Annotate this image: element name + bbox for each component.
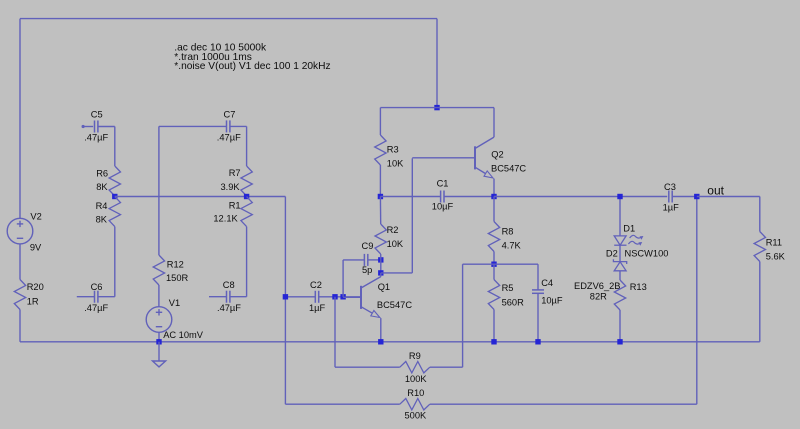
wire R13 bottom to rail (619, 310, 621, 342)
svg-text:5.6K: 5.6K (766, 251, 786, 261)
wire R7 bottom to node (246, 195, 248, 198)
diode D2 zener (613, 259, 626, 271)
svg-text:100K: 100K (405, 374, 428, 384)
wire C7 row left vertical to R12 (158, 126, 160, 255)
node out (694, 194, 699, 199)
transistor Q2 BC547C (412, 108, 494, 197)
svg-text:10K: 10K (387, 239, 404, 249)
svg-text:1R: 1R (27, 297, 39, 307)
node R9 tap on base wire (332, 294, 337, 299)
capacitor C8 (209, 296, 227, 298)
svg-text:1µF: 1µF (309, 303, 326, 313)
resistor R4 (109, 197, 120, 227)
svg-text:C7: C7 (224, 109, 236, 119)
svg-text:8K: 8K (96, 215, 108, 225)
svg-text:R7: R7 (229, 168, 241, 178)
svg-text:R8: R8 (502, 227, 514, 237)
svg-text:C1: C1 (437, 179, 449, 189)
svg-text:BC547C: BC547C (377, 300, 412, 310)
node Q1 collector junction (378, 270, 383, 275)
wire D1-D2 link (619, 245, 621, 261)
wire drop to R10 row (284, 197, 286, 405)
node C4 bottom rail (535, 339, 540, 344)
resistor R20 (14, 280, 25, 310)
svg-text:R9: R9 (409, 351, 421, 361)
wire V1 bottom to rail (158, 332, 160, 342)
wire R12 to V1 (158, 285, 160, 307)
svg-text:500K: 500K (405, 411, 428, 421)
ground rail bottom (20, 341, 760, 343)
wire R10 row (285, 403, 399, 405)
svg-text:.47µF: .47µF (84, 133, 108, 143)
node C9 right R2 bottom (378, 257, 383, 262)
wire R3 top lead (379, 108, 381, 135)
wire R20 to ground rail (19, 310, 21, 342)
wire top rail from V2 to center tee (20, 18, 437, 20)
svg-text:R2: R2 (387, 225, 399, 235)
svg-text:C3: C3 (664, 182, 676, 192)
capacitor C3 (668, 191, 670, 203)
resistor R1 (241, 197, 252, 227)
wire R4 bottom to C6 (114, 227, 116, 297)
resistor R8 (488, 222, 499, 252)
svg-text:R5: R5 (502, 283, 514, 293)
node R7-R1 junction (244, 194, 249, 199)
wire R6 bottom to node (114, 195, 116, 198)
transistor Q1 BC547C (343, 273, 381, 342)
wire mid row node to R2 top (379, 197, 381, 225)
resistor R5 (488, 280, 499, 310)
svg-text:9V: 9V (30, 242, 42, 252)
capacitor C2 (285, 296, 315, 298)
wire R9 row right (430, 366, 463, 368)
capacitor C9 left riser (342, 260, 344, 297)
svg-text:R10: R10 (407, 388, 424, 398)
LED arrows D1 (628, 235, 643, 245)
svg-text:10K: 10K (387, 159, 404, 169)
wire out riser (696, 197, 698, 405)
svg-text:10µF: 10µF (541, 295, 563, 305)
wire R8 bottom to junction (493, 252, 495, 265)
resistor R3 (375, 135, 386, 165)
svg-text:EDZV6_2B: EDZV6_2B (574, 281, 621, 291)
node V1 ground junction (156, 339, 161, 344)
wire R10 row right to out riser (430, 403, 697, 405)
svg-text:R13: R13 (630, 282, 647, 292)
wire R2 bottom lead (380, 254, 382, 260)
wire mid row right section (494, 196, 667, 198)
svg-text:82R: 82R (590, 292, 607, 302)
ground symbol (153, 342, 166, 367)
svg-text:NSCW100: NSCW100 (625, 248, 669, 258)
svg-text:10µF: 10µF (432, 202, 454, 212)
svg-text:C5: C5 (91, 109, 103, 119)
svg-text:AC 10mV: AC 10mV (163, 330, 204, 340)
node R8-R5-C4 junction (491, 262, 496, 267)
capacitor C9 (343, 259, 364, 261)
node tee at top sub-rail (434, 105, 439, 110)
svg-text:1µF: 1µF (663, 202, 680, 212)
wire C5 left lead (83, 126, 93, 128)
resistor R9 (400, 362, 430, 373)
svg-text:R6: R6 (96, 168, 108, 178)
wire R9 right riser (462, 264, 464, 367)
svg-text:C8: C8 (223, 280, 235, 290)
wire junction to R5 top (493, 264, 495, 279)
svg-text:D2: D2 (606, 248, 618, 258)
capacitor C5 open end dot (82, 125, 85, 128)
wire collector node to Q2 base riser (381, 272, 413, 274)
wire C4 bottom to rail (537, 293, 539, 342)
node C2 left tap (283, 294, 288, 299)
svg-text:.47µF: .47µF (84, 303, 108, 313)
node R6-R4 junction (112, 194, 117, 199)
wire D2 to R13 (619, 271, 621, 280)
wire center tee vertical (436, 19, 438, 108)
svg-text:.47µF: .47µF (217, 133, 241, 143)
diode D1 LED (614, 236, 626, 245)
resistor R10 (400, 399, 430, 410)
wire junction row (463, 263, 538, 265)
wire top sub-rail R3 to Q2 collector (380, 107, 494, 109)
node R5 bottom rail (491, 339, 496, 344)
svg-text:*.noise V(out) V1 dec 100 1 20: *.noise V(out) V1 dec 100 1 20kHz (174, 61, 330, 72)
svg-text:.47µF: .47µF (217, 303, 241, 313)
node D1 top (617, 194, 622, 199)
svg-text:12.1K: 12.1K (213, 214, 238, 224)
wire left vertical V2 branch top (19, 19, 21, 219)
resistor R6 (109, 166, 120, 196)
wire C7 right to R7 (246, 126, 248, 166)
wire V2 to R20 (19, 244, 21, 280)
node R13 bottom rail (617, 339, 622, 344)
svg-text:R20: R20 (27, 282, 44, 292)
wire R9 vertical drop (334, 297, 336, 367)
svg-text:V2: V2 (30, 212, 41, 222)
node Q2 emitter mid row (491, 194, 496, 199)
wire R8 top lead (493, 197, 495, 222)
capacitor C4 (532, 289, 544, 291)
svg-text:560R: 560R (502, 297, 525, 307)
svg-text:C4: C4 (541, 278, 553, 288)
capacitor C1 (380, 196, 440, 198)
svg-text:3.9K: 3.9K (221, 182, 241, 192)
svg-text:Q2: Q2 (491, 150, 503, 160)
svg-text:Q1: Q1 (378, 282, 390, 292)
node R3 bottom C1 left (378, 194, 383, 199)
wire D1 top lead (619, 197, 621, 236)
svg-text:4.7K: 4.7K (502, 241, 522, 251)
wire node to collector node (380, 260, 382, 273)
capacitor C5 (94, 121, 96, 133)
svg-text:R4: R4 (96, 201, 108, 211)
wire R3 bottom to mid row (379, 165, 381, 197)
node Q1 emitter on rail (378, 339, 383, 344)
resistor R11 (754, 232, 765, 262)
svg-text:BC547C: BC547C (491, 164, 526, 174)
svg-text:C9: C9 (362, 241, 374, 251)
voltage source V2 (7, 218, 33, 244)
svg-text:150R: 150R (166, 273, 189, 283)
wire R5 bottom to rail (493, 310, 495, 342)
wire R9 row left (335, 366, 400, 368)
wire R1 bottom to C8 (246, 227, 248, 297)
svg-text:5p: 5p (362, 265, 372, 275)
wire out to R11 top (697, 196, 760, 198)
wire C5 right to R6 top (98, 126, 115, 128)
svg-text:R12: R12 (167, 259, 184, 269)
svg-text:V1: V1 (169, 298, 180, 308)
svg-text:C6: C6 (91, 282, 103, 292)
resistor R7 (241, 166, 252, 196)
svg-text:8K: 8K (96, 182, 108, 192)
resistor R12 (153, 255, 164, 285)
svg-text:C2: C2 (310, 280, 322, 290)
capacitor C6 (77, 296, 95, 298)
capacitor C7 (159, 125, 227, 127)
wire R11 bottom to rail (759, 262, 761, 342)
wire mid row left node to R10 drop (115, 196, 286, 198)
voltage source V1 (146, 307, 172, 333)
capacitor C4 top lead (537, 264, 539, 290)
svg-text:out: out (707, 184, 724, 198)
svg-text:R11: R11 (766, 237, 782, 247)
svg-text:R3: R3 (387, 145, 399, 155)
svg-text:R1: R1 (229, 201, 241, 211)
node C9 tap on base wire (340, 294, 345, 299)
resistor R2 (375, 224, 386, 254)
svg-text:D1: D1 (623, 224, 635, 234)
resistor R13 (614, 280, 625, 310)
